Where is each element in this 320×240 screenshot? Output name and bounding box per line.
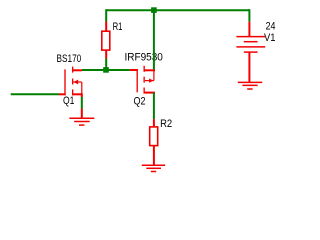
node junction B — [103, 67, 109, 73]
body arrow — [73, 80, 78, 85]
body arrow — [149, 79, 153, 83]
body vertical — [81, 82, 83, 94]
wire node B horizontal left to Q1 drain — [82, 69, 104, 71]
gate bar — [64, 69, 66, 95]
channel segment top — [72, 67, 74, 73]
wire R1 top vertical — [105, 9, 107, 21]
body vertical — [153, 70, 155, 80]
plate short 1 — [244, 41, 258, 43]
wire R1 bottom to node — [105, 59, 107, 69]
ground under R2 — [142, 165, 165, 171]
gate lead — [130, 69, 138, 71]
svg-text:V1: V1 — [264, 32, 276, 44]
plate long 1 — [236, 36, 265, 38]
svg-text:R1: R1 — [113, 21, 123, 34]
channel segment top — [143, 66, 145, 72]
drain arm — [144, 92, 156, 94]
wire input to Q1 gate — [11, 93, 59, 95]
source arm — [144, 69, 156, 71]
wire Q1 source to ground — [81, 97, 83, 109]
plate long 2 — [236, 46, 265, 48]
channel segment bottom — [143, 88, 145, 94]
wire battery top vertical — [248, 9, 250, 22]
transistor Q1 BS170 — [59, 67, 82, 98]
svg-text:24: 24 — [266, 21, 276, 33]
svg-text:BS170: BS170 — [57, 53, 82, 65]
gate lead — [59, 93, 66, 95]
wire top rail — [107, 9, 250, 11]
transistor Q2 IRF9530 — [130, 66, 155, 94]
wire Q2 source up to rail — [153, 9, 155, 69]
drain arm — [72, 69, 82, 71]
body arm — [145, 80, 154, 82]
channel segment bottom — [72, 89, 74, 95]
svg-text:Q1: Q1 — [63, 95, 74, 107]
node junction top — [151, 7, 157, 13]
ground under battery — [238, 82, 262, 89]
source arm — [72, 93, 82, 95]
plate short 2 — [244, 51, 258, 53]
wire node B horizontal right to Q2 gate — [109, 69, 130, 71]
resistor R2 — [150, 119, 158, 165]
wire Q2 drain down to R2 — [153, 93, 155, 120]
body arm — [73, 81, 82, 83]
svg-text:IRF9530: IRF9530 — [125, 51, 163, 64]
channel segment middle — [72, 79, 74, 85]
svg-text:R2: R2 — [160, 118, 172, 130]
bottom lead — [248, 52, 250, 82]
battery V1 — [236, 22, 265, 82]
ground under Q1 — [69, 109, 94, 126]
resistor R1 — [102, 22, 110, 59]
gate bar — [136, 69, 138, 92]
svg-text:Q2: Q2 — [134, 96, 146, 108]
source pin stub down — [81, 93, 83, 97]
channel segment middle — [143, 77, 145, 83]
